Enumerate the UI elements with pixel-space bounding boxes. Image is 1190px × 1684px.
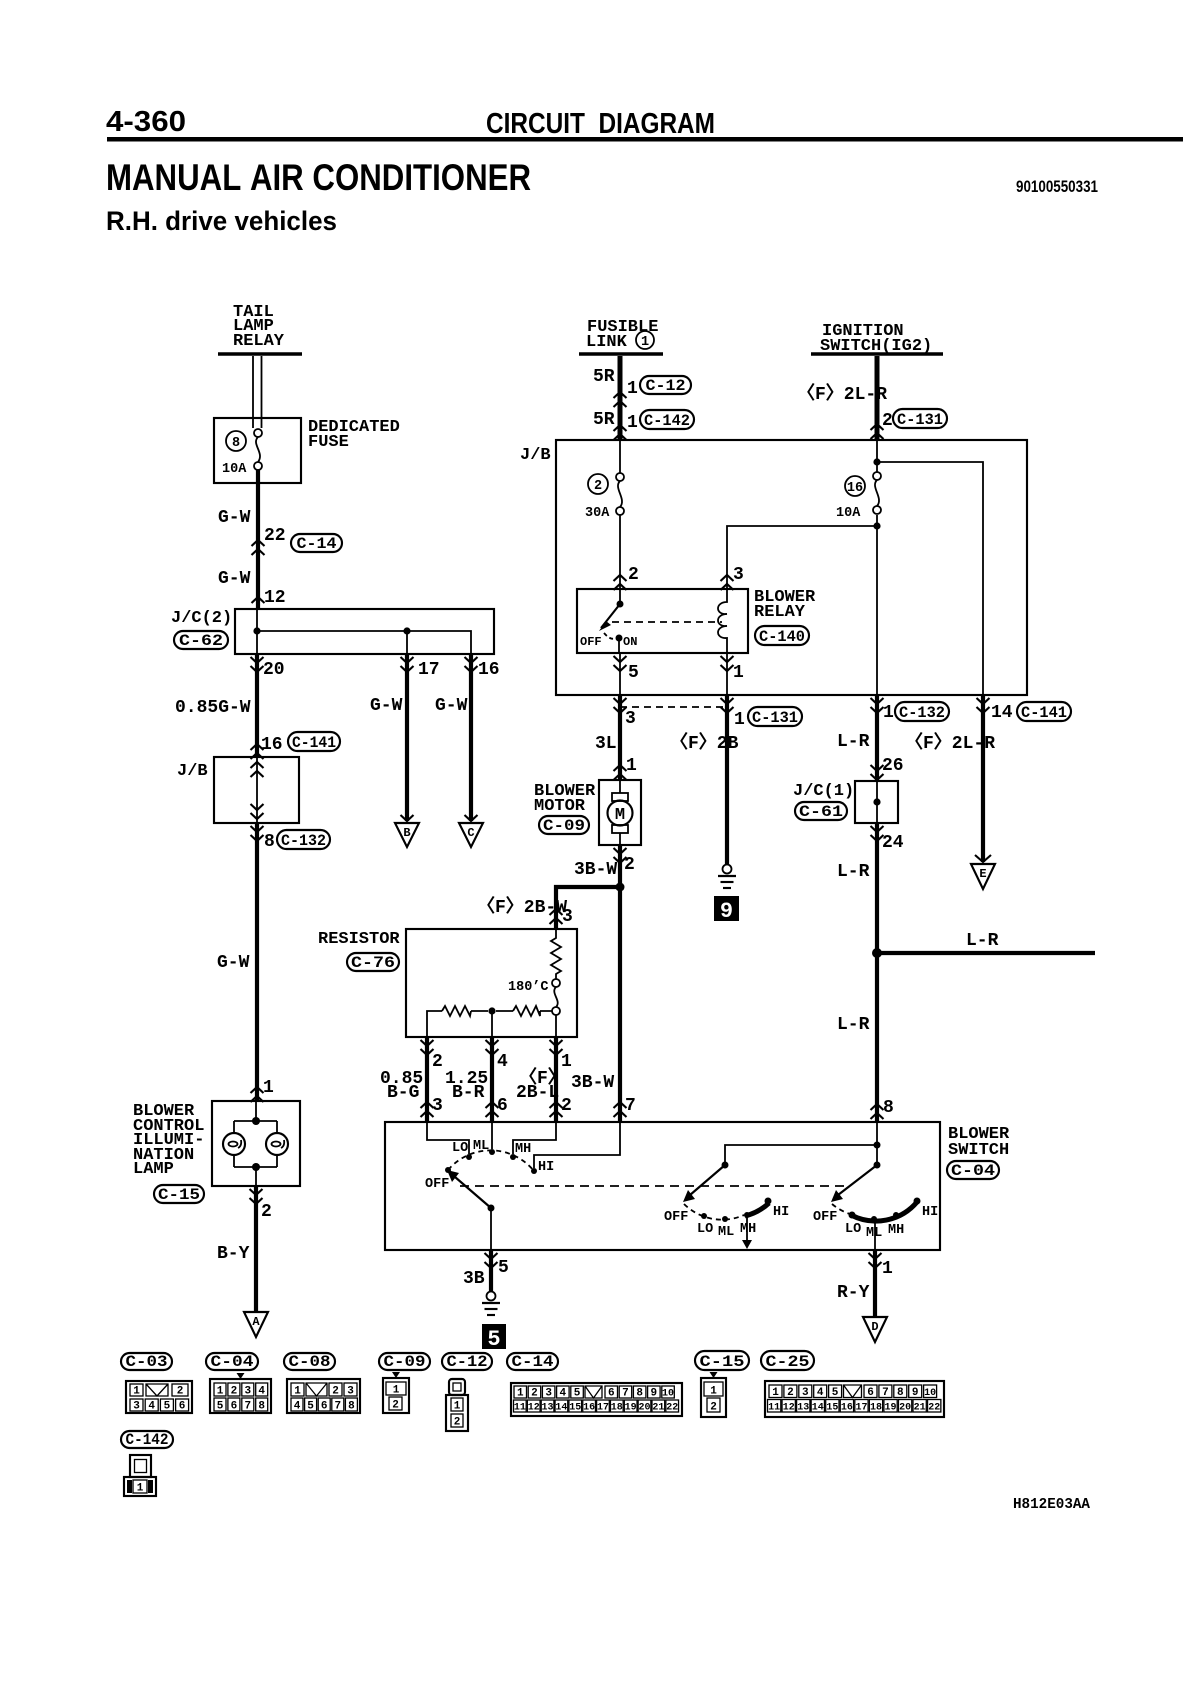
- switch2 feed from pin8: [722, 1142, 881, 1169]
- svg-text:3B: 3B: [463, 1269, 485, 1289]
- svg-text:12: 12: [528, 1403, 540, 1414]
- svg-text:5: 5: [307, 1401, 314, 1413]
- connector C-142 oval label: [121, 1431, 173, 1449]
- svg-text:7: 7: [882, 1387, 889, 1399]
- svg-text:C-08: C-08: [289, 1353, 331, 1371]
- wire relay pin5 to J/B edge: [619, 653, 621, 695]
- connector C-62 oval: [174, 631, 228, 650]
- svg-text:C-09: C-09: [384, 1353, 426, 1371]
- chevrons inside left J/B: [251, 762, 264, 819]
- svg-text:17: 17: [418, 660, 440, 680]
- connector C-142 pinout: [124, 1455, 156, 1496]
- svg-text:1: 1: [882, 1259, 893, 1279]
- svg-text:SWITCH: SWITCH: [948, 1141, 1009, 1160]
- svg-text:180’C: 180’C: [508, 980, 549, 995]
- wire B-Y: [254, 1186, 258, 1312]
- svg-text:7: 7: [244, 1401, 251, 1413]
- svg-text:14: 14: [991, 703, 1013, 723]
- svg-text:C-131: C-131: [897, 411, 943, 429]
- svg-text:6: 6: [497, 1096, 508, 1116]
- ground triangle C: [459, 815, 483, 847]
- svg-text:2: 2: [261, 1202, 272, 1222]
- pin 17 label: [401, 657, 440, 680]
- switch3 contact arc thick: [851, 1202, 917, 1221]
- switch pin 8: [871, 1098, 894, 1119]
- svg-text:MOTOR: MOTOR: [534, 797, 586, 816]
- wire L-R to blower switch: [875, 823, 879, 1122]
- pin 16 and connector C-141: [251, 732, 341, 759]
- junction dot L-R branch: [872, 948, 882, 958]
- switch1 feed wire pin2 to MH: [513, 1122, 556, 1154]
- svg-text:17: 17: [855, 1403, 867, 1414]
- J/C(1) junction dot: [873, 798, 880, 805]
- svg-text:〈F〉2B: 〈F〉2B: [670, 732, 739, 754]
- svg-text:1: 1: [517, 1388, 524, 1400]
- svg-text:7: 7: [625, 1096, 636, 1116]
- svg-text:C-25: C-25: [766, 1353, 810, 1371]
- svg-text:2: 2: [561, 1096, 572, 1116]
- svg-text:15: 15: [826, 1403, 838, 1414]
- svg-text:17: 17: [597, 1403, 609, 1414]
- svg-text:MH: MH: [888, 1223, 904, 1238]
- resistor pin 4: [486, 1040, 509, 1072]
- switch1 contact arc dashed: [448, 1150, 534, 1171]
- resistor element vertical: [551, 929, 561, 979]
- svg-text:20: 20: [263, 660, 285, 680]
- blower switch box: [385, 1122, 940, 1250]
- svg-text:RELAY: RELAY: [754, 603, 806, 622]
- svg-text:2: 2: [392, 1400, 399, 1412]
- junction dot at J/C(2) pin 20: [253, 627, 260, 634]
- svg-text:OFF: OFF: [580, 635, 602, 649]
- switch3 wiper arm: [831, 1165, 877, 1202]
- pin 26 of J/C(1): [871, 756, 904, 780]
- relay pin 3 label: [721, 565, 744, 590]
- svg-text:R-Y: R-Y: [837, 1283, 870, 1303]
- wire G-W to ground B: [405, 654, 409, 821]
- svg-text:12: 12: [783, 1403, 795, 1414]
- svg-text:1: 1: [710, 1386, 717, 1398]
- wire 0.85G-W: [255, 654, 259, 757]
- circled fuse number 16: [845, 476, 865, 496]
- svg-text:C-14: C-14: [512, 1353, 554, 1371]
- svg-text:C-04: C-04: [211, 1353, 254, 1371]
- svg-text:G-W: G-W: [218, 508, 251, 528]
- svg-text:15: 15: [569, 1403, 581, 1414]
- connector C-14 oval label: [507, 1353, 558, 1371]
- svg-text:1: 1: [393, 1385, 400, 1397]
- svg-text:MANUAL AIR CONDITIONER: MANUAL AIR CONDITIONER: [106, 157, 531, 198]
- svg-text:1: 1: [133, 1386, 140, 1398]
- relay pin 5 label: [614, 656, 639, 683]
- connector C-14 pinout: [511, 1383, 682, 1416]
- wire 0.85B-G: [425, 1037, 429, 1122]
- svg-text:13: 13: [797, 1403, 809, 1414]
- pin 1 and connector C-12: [614, 376, 692, 407]
- svg-text:G-W: G-W: [218, 569, 251, 589]
- dedicated fuse label: [308, 418, 400, 452]
- svg-text:RELAY: RELAY: [233, 332, 285, 351]
- pin 24 of J/C(1): [871, 826, 904, 853]
- svg-text:16: 16: [841, 1403, 853, 1414]
- chevrons at J/B bottom exits: [614, 698, 627, 713]
- svg-text:2: 2: [454, 1417, 461, 1429]
- relay linkage dashed: [612, 621, 722, 623]
- svg-text:8: 8: [258, 1401, 265, 1413]
- dashed connector tie C-131: [620, 706, 727, 708]
- pin 12 at J/C(2): [252, 588, 286, 608]
- wire through left J/B: [256, 757, 258, 823]
- svg-text:4: 4: [294, 1401, 301, 1413]
- switch pin 5 below: [485, 1253, 509, 1278]
- switch3 contact arc dashed: [832, 1204, 850, 1214]
- connector C-12 pinout: [446, 1379, 468, 1431]
- svg-text:1: 1: [217, 1386, 224, 1398]
- resistor bus junction dot: [488, 1007, 495, 1014]
- connector C-15 pinout: [701, 1372, 726, 1417]
- svg-text:5: 5: [164, 1401, 171, 1413]
- blower motor symbol M: [608, 780, 633, 845]
- svg-text:5: 5: [574, 1388, 581, 1400]
- svg-text:9: 9: [720, 899, 733, 924]
- svg-text:21: 21: [652, 1403, 664, 1414]
- relay pin 2 label: [614, 565, 639, 590]
- svg-text:16: 16: [261, 735, 283, 755]
- fusible link bus bar: [579, 352, 663, 356]
- ground symbol 5: [482, 1292, 500, 1316]
- svg-text:2: 2: [432, 1052, 443, 1072]
- svg-text:G-W: G-W: [435, 696, 468, 716]
- mechanical linkage dashed: [460, 1185, 847, 1187]
- switch3 pole wire: [874, 1219, 876, 1250]
- svg-text:10: 10: [662, 1389, 674, 1400]
- svg-text:16: 16: [583, 1403, 595, 1414]
- switch1 wiper arm: [447, 1170, 495, 1212]
- blower relay label: [754, 588, 816, 622]
- switch pin 7: [614, 1096, 636, 1117]
- pin 1 and connector C-132 below J/B: [883, 702, 949, 723]
- svg-text:3: 3: [733, 565, 744, 585]
- svg-text:5: 5: [628, 663, 639, 683]
- svg-text:C-141: C-141: [292, 734, 336, 752]
- svg-text:24: 24: [882, 833, 904, 853]
- junction dot below 10A fuse: [873, 522, 880, 529]
- wire F 2L-R to ground E: [981, 695, 985, 862]
- svg-text:3L: 3L: [595, 734, 617, 754]
- svg-text:C-09: C-09: [543, 817, 585, 835]
- svg-text:J/C(2): J/C(2): [171, 609, 232, 628]
- resistor internal bus: [427, 1011, 556, 1037]
- blower switch label: [948, 1125, 1010, 1160]
- svg-text:3: 3: [347, 1386, 354, 1398]
- svg-text:B: B: [403, 826, 410, 840]
- svg-text:C: C: [467, 826, 474, 840]
- svg-text:4-360: 4-360: [106, 106, 186, 138]
- wire G-W from dedicated fuse: [256, 470, 260, 609]
- svg-text:OFF: OFF: [813, 1210, 837, 1225]
- svg-text:9: 9: [912, 1387, 919, 1399]
- switch2 contact arc thick: [745, 1203, 769, 1216]
- svg-text:3B-W: 3B-W: [574, 860, 617, 880]
- blower control illumination lamp label: [133, 1102, 204, 1179]
- svg-text:J/B: J/B: [177, 762, 208, 781]
- svg-text:11: 11: [514, 1403, 526, 1414]
- branch wire to resistor: [556, 887, 620, 929]
- switch pin 3: [421, 1096, 443, 1117]
- svg-text:22: 22: [928, 1403, 940, 1414]
- wire twin leads from relay to fuse: [253, 356, 262, 428]
- connector C-04 oval: [947, 1161, 999, 1180]
- svg-text:4: 4: [497, 1052, 508, 1072]
- svg-text:10A: 10A: [836, 506, 861, 521]
- svg-text:B-G: B-G: [387, 1083, 419, 1103]
- switch pin 2: [550, 1096, 572, 1117]
- svg-text:4: 4: [258, 1386, 265, 1398]
- pin 1 and connector C-142: [614, 410, 695, 440]
- switch1 pole wire: [490, 1208, 492, 1250]
- switch1 contact labels: [425, 1139, 554, 1192]
- switch2 contact arc dashed: [684, 1204, 744, 1220]
- svg-text:1: 1: [627, 413, 638, 433]
- svg-text:6: 6: [179, 1401, 186, 1413]
- svg-text:C-12: C-12: [646, 377, 686, 395]
- svg-text:4: 4: [817, 1387, 824, 1399]
- circled fuse number 2: [588, 474, 608, 494]
- dedicated fuse box: [214, 418, 301, 483]
- blower relay box: [577, 589, 748, 653]
- svg-text:16: 16: [847, 481, 863, 496]
- wire R-Y to ground D: [873, 1250, 877, 1317]
- svg-text:2: 2: [531, 1388, 538, 1400]
- svg-text:G-W: G-W: [217, 953, 250, 973]
- switch1 feed wire pin3 to LO: [427, 1122, 469, 1154]
- switch2 contact dots: [701, 1198, 772, 1223]
- svg-text:1: 1: [734, 710, 745, 730]
- connector C-08 pinout: [287, 1379, 360, 1413]
- svg-text:2: 2: [332, 1386, 339, 1398]
- svg-text:20: 20: [638, 1403, 650, 1414]
- svg-text:D: D: [871, 1320, 878, 1334]
- connector C-04 pinout: [210, 1373, 271, 1413]
- connector C-03 oval label: [121, 1353, 172, 1371]
- svg-text:CIRCUIT DIAGRAM: CIRCUIT DIAGRAM: [486, 108, 715, 140]
- svg-text:J/C(1): J/C(1): [793, 782, 854, 801]
- svg-text:〈F〉2B-W: 〈F〉2B-W: [477, 896, 567, 918]
- svg-text:16: 16: [478, 660, 500, 680]
- switch pin 6: [486, 1096, 508, 1117]
- svg-text:J/B: J/B: [520, 446, 551, 465]
- svg-text:M: M: [615, 806, 625, 825]
- svg-text:8: 8: [264, 832, 275, 852]
- junction block J/B left box: [214, 757, 299, 823]
- svg-text:B-Y: B-Y: [217, 1244, 250, 1264]
- svg-text:G-W: G-W: [370, 696, 403, 716]
- wire inside J/B ignition column: [727, 440, 983, 695]
- pin 1 of blower motor: [614, 756, 638, 780]
- fuse element 30A: [585, 473, 624, 521]
- wire label F 2B-L: [516, 1067, 566, 1103]
- ground triangle D: [863, 1317, 887, 1342]
- fusible link label: [586, 318, 658, 352]
- switch3 contact dots: [849, 1198, 921, 1223]
- svg-text:14: 14: [555, 1403, 567, 1414]
- svg-text:C-14: C-14: [297, 535, 337, 553]
- svg-text:26: 26: [882, 756, 904, 776]
- svg-text:5: 5: [832, 1387, 839, 1399]
- svg-text:3: 3: [133, 1401, 140, 1413]
- svg-text:MH: MH: [740, 1222, 756, 1237]
- wire through J/C(1): [876, 781, 878, 823]
- svg-text:8: 8: [897, 1387, 904, 1399]
- svg-text:LO: LO: [452, 1141, 468, 1156]
- svg-text:ML: ML: [718, 1225, 734, 1240]
- resistor pin 1: [550, 1040, 573, 1072]
- svg-text:LO: LO: [845, 1222, 861, 1237]
- svg-text:L-R: L-R: [837, 1015, 870, 1035]
- svg-text:1: 1: [883, 703, 894, 723]
- circled fuse number 8: [226, 431, 246, 451]
- svg-text:7: 7: [622, 1388, 629, 1400]
- connector C-61 oval: [795, 802, 847, 821]
- svg-text:20: 20: [899, 1403, 911, 1414]
- svg-text:2: 2: [787, 1387, 794, 1399]
- svg-text:5R: 5R: [593, 410, 615, 430]
- svg-text:6: 6: [867, 1387, 874, 1399]
- relay pin 1 label: [721, 656, 745, 683]
- svg-text:C-15: C-15: [158, 1186, 200, 1204]
- svg-text:E: E: [979, 867, 986, 881]
- svg-text:OFF: OFF: [425, 1177, 449, 1192]
- connector C-08 oval label: [284, 1353, 335, 1371]
- switch3 contact labels: [813, 1205, 938, 1241]
- svg-text:LAMP: LAMP: [133, 1160, 174, 1179]
- wire 3B-W below motor: [618, 845, 622, 1122]
- svg-text:19: 19: [625, 1403, 637, 1414]
- wire 1.25B-R: [490, 1037, 494, 1122]
- svg-text:C-03: C-03: [126, 1353, 168, 1371]
- svg-text:90100550331: 90100550331: [1016, 177, 1098, 196]
- svg-text:C-132: C-132: [281, 832, 326, 850]
- svg-text:2: 2: [231, 1386, 238, 1398]
- wire F 2L-R from ignition switch: [875, 356, 880, 440]
- tail lamp relay bus bar: [218, 352, 302, 356]
- wire label 1.25 B-R: [445, 1069, 488, 1103]
- svg-text:A: A: [252, 1315, 260, 1329]
- connector C-15 oval label: [695, 1351, 749, 1371]
- svg-text:1: 1: [294, 1386, 301, 1398]
- fuse element 10A ignition: [836, 472, 881, 521]
- blower motor box: [599, 780, 641, 845]
- svg-text:22: 22: [264, 526, 286, 546]
- junction dot ignition top: [873, 458, 880, 465]
- svg-text:6: 6: [231, 1401, 238, 1413]
- svg-text:6: 6: [321, 1401, 328, 1413]
- switch1 feed wire pin6 to ML: [491, 1122, 493, 1149]
- pin 22 and connector C-14: [252, 526, 343, 555]
- svg-text:3: 3: [625, 709, 636, 729]
- ignition switch label: [820, 322, 932, 356]
- fuse element 10A: [222, 429, 262, 477]
- svg-text:C-04: C-04: [951, 1162, 995, 1180]
- pin 2 of lamp: [250, 1189, 272, 1222]
- svg-text:C-62: C-62: [179, 632, 223, 650]
- pin 1 and connector C-131 below J/B: [734, 707, 802, 730]
- svg-text:10: 10: [924, 1388, 936, 1399]
- svg-text:0.85G-W: 0.85G-W: [175, 698, 251, 718]
- wire F 2B-L: [554, 1037, 558, 1122]
- ignition switch bus bar: [811, 352, 943, 356]
- svg-text:5: 5: [217, 1401, 224, 1413]
- svg-text:C-15: C-15: [700, 1353, 745, 1371]
- svg-text:MH: MH: [515, 1142, 531, 1157]
- connector C-04 oval label: [206, 1353, 258, 1371]
- relay coil: [718, 589, 727, 653]
- svg-text:ON: ON: [623, 635, 637, 649]
- svg-text:2: 2: [882, 411, 893, 431]
- ground ref black box 9: [714, 896, 739, 924]
- svg-text:HI: HI: [922, 1205, 938, 1220]
- svg-text:HI: HI: [538, 1160, 554, 1175]
- svg-text:21: 21: [914, 1403, 926, 1414]
- switch1 contact dots: [445, 1149, 537, 1174]
- svg-text:5: 5: [498, 1258, 509, 1278]
- pin 2 of blower motor: [614, 848, 635, 875]
- svg-text:FUSE: FUSE: [308, 433, 349, 452]
- svg-text:C-61: C-61: [799, 803, 843, 821]
- svg-text:3: 3: [562, 907, 573, 927]
- svg-text:1: 1: [641, 335, 649, 350]
- svg-text:B-R: B-R: [452, 1083, 485, 1103]
- svg-text:1: 1: [137, 1483, 144, 1495]
- connector C-76 oval: [347, 953, 399, 972]
- svg-text:8: 8: [348, 1401, 355, 1413]
- svg-text:30A: 30A: [585, 506, 610, 521]
- lamp internal wiring: [234, 1101, 277, 1186]
- svg-text:11: 11: [768, 1403, 780, 1414]
- junction block J/B main box: [556, 440, 1027, 695]
- svg-text:6: 6: [608, 1388, 615, 1400]
- svg-text:C-140: C-140: [759, 628, 805, 646]
- pin 8 and connector C-132: [251, 826, 331, 852]
- svg-text:3B-W: 3B-W: [571, 1073, 614, 1093]
- svg-text:C-142: C-142: [644, 412, 690, 430]
- pin 1 of lamp: [251, 1078, 275, 1102]
- pin 3 of resistor: [550, 907, 573, 927]
- wire G-W to illumination lamp: [255, 823, 259, 1101]
- header rule: [107, 137, 1183, 142]
- junction connector J/C(2) box: [235, 609, 494, 654]
- svg-text:7: 7: [334, 1401, 341, 1413]
- J/C(2) internal bus wire: [257, 609, 471, 654]
- svg-text:3: 3: [432, 1096, 443, 1116]
- svg-text:C-76: C-76: [351, 954, 395, 972]
- svg-text:22: 22: [666, 1403, 678, 1414]
- ground triangle A: [244, 1312, 268, 1337]
- resistor element horizontal left: [442, 1006, 471, 1016]
- svg-text:18: 18: [611, 1403, 623, 1414]
- svg-text:L-R: L-R: [966, 931, 999, 951]
- wire 3L to blower motor: [618, 695, 622, 780]
- svg-text:L-R: L-R: [837, 862, 870, 882]
- wire L-R branch horizontal: [877, 951, 1095, 955]
- svg-text:8: 8: [636, 1388, 643, 1400]
- svg-text:3: 3: [244, 1386, 251, 1398]
- svg-text:2: 2: [177, 1386, 184, 1398]
- wire 5R from fusible link: [618, 356, 623, 440]
- svg-text:2: 2: [594, 479, 602, 494]
- resistor box: [406, 929, 577, 1037]
- svg-text:5: 5: [487, 1327, 500, 1352]
